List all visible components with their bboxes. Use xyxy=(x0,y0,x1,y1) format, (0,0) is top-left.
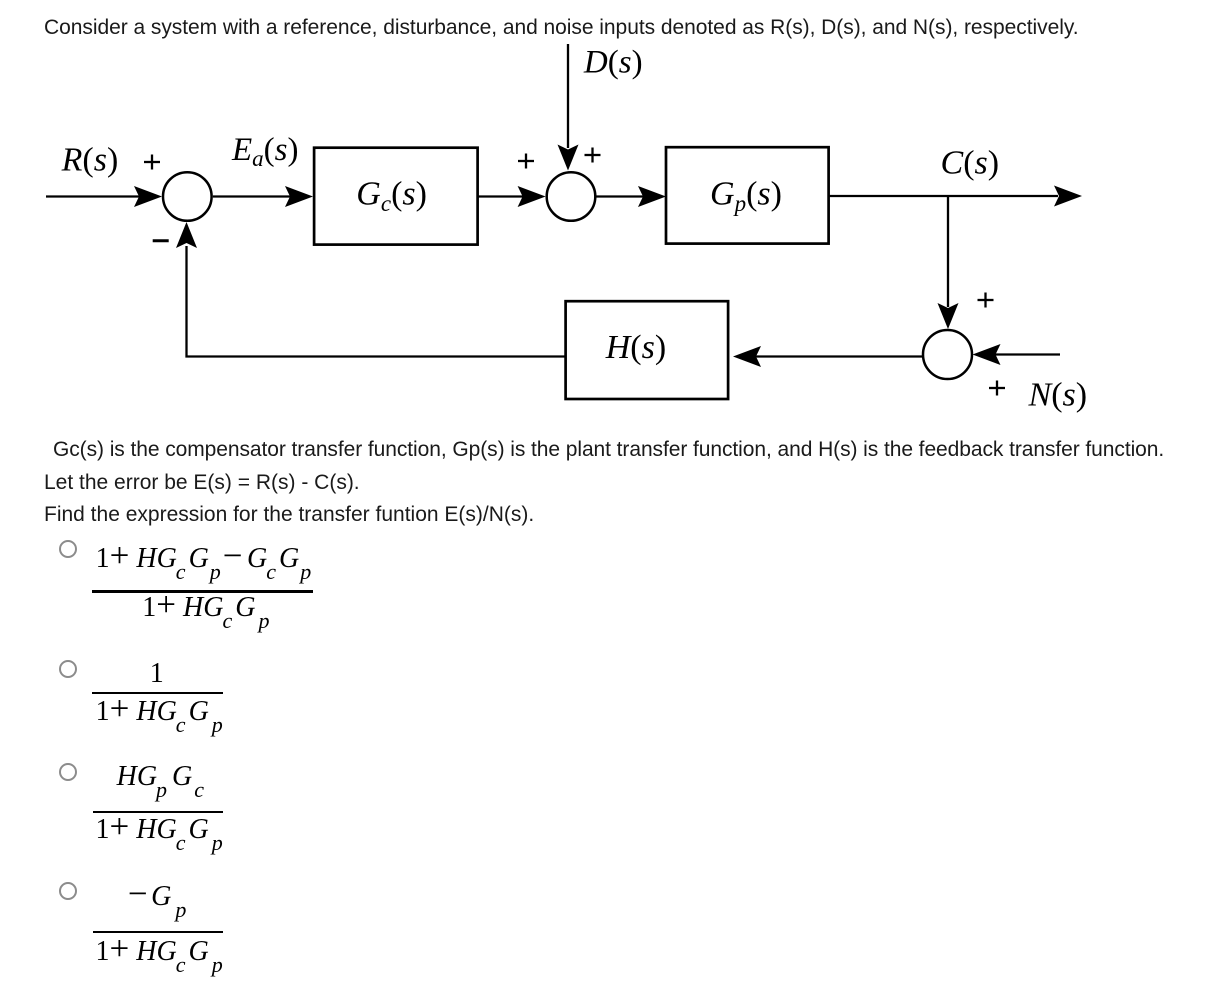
arrowhead output xyxy=(1054,186,1082,207)
question text line 1 xyxy=(44,15,1079,40)
option 2 fraction bar xyxy=(92,692,224,694)
plus sign left of S2 xyxy=(518,154,534,169)
block Gc(s) xyxy=(314,148,478,245)
wire S2 to Gp xyxy=(596,195,644,197)
option 1 numerator xyxy=(96,545,312,573)
question text line 4 xyxy=(44,502,534,527)
question text line 3 xyxy=(44,470,360,495)
plus sign right of S2 xyxy=(585,148,601,163)
option 1 radio xyxy=(59,540,77,558)
option 3 radio xyxy=(59,763,77,781)
option 2 radio xyxy=(59,660,77,678)
arrowhead D into S2 xyxy=(558,145,579,171)
label Gc(s) in block xyxy=(356,176,427,217)
wire S1 to Gc xyxy=(213,195,291,197)
svg-text:C(s): C(s) xyxy=(941,144,1000,181)
option 3 fraction bar xyxy=(93,811,224,813)
label C(s) xyxy=(941,144,1000,181)
option 4 radio xyxy=(59,882,77,900)
svg-text:N(s): N(s) xyxy=(1028,377,1088,414)
arrowhead into summing junction S1 xyxy=(134,186,162,207)
wire branch down from node xyxy=(947,196,949,307)
minus sign at S1 xyxy=(153,239,169,242)
plus sign at S1 xyxy=(144,155,160,170)
block H(s) xyxy=(566,301,729,399)
option 4 numerator xyxy=(128,883,186,911)
wire output C(s) xyxy=(829,195,1058,197)
option 2 numerator xyxy=(150,660,164,688)
svg-text:Gc(s): Gc(s) xyxy=(356,176,427,217)
question text line 2 xyxy=(53,437,1164,462)
summing junction S3 xyxy=(923,330,972,379)
wire R(s) input xyxy=(46,195,140,197)
label N(s) xyxy=(1028,377,1088,414)
wire S3 to H xyxy=(755,355,923,357)
wire feedback H to S1 xyxy=(187,246,566,357)
arrowhead branch into S3 xyxy=(938,303,959,329)
label Gp(s) in block xyxy=(710,176,782,217)
arrowhead feedback into S1 xyxy=(176,222,197,248)
summing junction S1 xyxy=(163,172,212,221)
option 1 denominator xyxy=(142,594,269,622)
arrowhead N into S3 xyxy=(973,344,1001,365)
plus sign above S3 xyxy=(978,293,994,308)
arrowhead into block Gc xyxy=(285,186,313,207)
label H(s) in block xyxy=(605,329,666,366)
svg-text:Ea(s): Ea(s) xyxy=(231,132,299,171)
option 3 denominator xyxy=(96,816,223,844)
svg-text:H(s): H(s) xyxy=(605,329,666,366)
arrowhead into block H xyxy=(733,346,761,367)
label Ea(s) xyxy=(231,132,299,171)
block diagram xyxy=(0,0,1220,470)
summing junction S2 xyxy=(547,172,596,221)
arrowhead into summing junction S2 xyxy=(518,186,546,207)
option 4 denominator xyxy=(96,938,223,966)
option 2 denominator xyxy=(96,698,223,726)
wire D(s) input xyxy=(567,44,569,148)
plus sign below S3 xyxy=(989,381,1005,396)
wire Gc to S2 xyxy=(478,195,523,197)
label D(s) xyxy=(583,44,643,80)
wire N(s) input xyxy=(994,353,1060,355)
option 4 fraction bar xyxy=(93,931,224,933)
svg-text:Gp(s): Gp(s) xyxy=(710,176,782,217)
arrowhead into block Gp xyxy=(638,186,666,207)
svg-text:D(s): D(s) xyxy=(583,44,643,80)
option 1 fraction bar xyxy=(92,590,313,592)
label R(s) xyxy=(61,141,119,178)
option 3 numerator xyxy=(117,763,204,791)
svg-text:R(s): R(s) xyxy=(61,141,119,178)
block Gp(s) xyxy=(666,147,829,243)
